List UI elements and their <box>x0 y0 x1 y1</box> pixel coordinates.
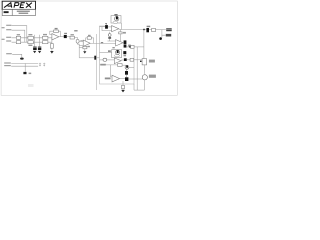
wire bias row <box>108 40 116 42</box>
wire comp rail <box>79 57 94 59</box>
wire elbow <box>102 27 112 31</box>
node label LIM <box>2 39 5 40</box>
op-amp U2 <box>83 40 90 46</box>
label R8 value <box>71 34 74 35</box>
wire pad B riser <box>106 23 108 25</box>
wire U5 out <box>122 42 125 44</box>
wire <box>12 54 22 57</box>
amplifier internal box U3 <box>100 26 135 84</box>
wire U1 output <box>59 36 64 38</box>
ground pad <box>23 72 26 74</box>
diode D2 <box>124 44 127 47</box>
wire lower row <box>100 64 118 66</box>
wire U6 out <box>121 59 124 61</box>
label row2 <box>6 29 11 30</box>
transistor Q1 cell <box>111 16 121 24</box>
resistor R5b <box>43 41 48 44</box>
transistor Q2 cell <box>112 50 122 58</box>
capacitor C2 <box>38 47 41 50</box>
label part number <box>74 30 77 32</box>
wire cap riser 2 <box>38 35 40 47</box>
current source I1 <box>108 32 111 41</box>
op-amp U7 driver <box>112 75 120 82</box>
label Q2 <box>112 47 114 48</box>
ground under C4 <box>83 51 86 53</box>
transistor Q3 <box>125 65 129 69</box>
node dot R13 <box>129 46 130 47</box>
symbol arrow 1 <box>39 63 41 67</box>
label C7 value <box>147 26 151 28</box>
ground under C1 <box>33 51 36 53</box>
wire U6 input <box>100 59 115 61</box>
wire <box>84 49 86 51</box>
label D6 <box>124 55 127 56</box>
label rowA <box>6 37 11 38</box>
wire rowB <box>12 41 52 43</box>
ground <box>20 58 24 60</box>
wire <box>161 35 163 37</box>
wire D4 <box>126 69 128 77</box>
ground under R12 <box>121 90 125 93</box>
wire output descent <box>143 30 145 59</box>
node pad B <box>105 25 108 29</box>
label C4 value <box>87 46 90 47</box>
node pad A <box>64 35 67 38</box>
diode D1 <box>124 40 127 44</box>
title block text <box>4 11 9 13</box>
label bias2 <box>100 64 106 66</box>
APEX logo <box>4 3 32 8</box>
wire rail riser <box>136 47 138 90</box>
wire long feedback vertical <box>96 34 98 90</box>
label R2 value <box>28 34 32 35</box>
resistor R11 <box>118 64 123 67</box>
wire <box>67 36 70 38</box>
node label IN <box>2 27 5 28</box>
label pad B <box>105 23 107 24</box>
wire <box>79 40 83 42</box>
label R1 value <box>17 34 20 35</box>
capacitor C5 <box>94 56 96 60</box>
wire Q2 left <box>100 52 112 54</box>
wire <box>122 64 126 66</box>
capacitor C1 <box>33 47 37 50</box>
resistor R8 <box>70 36 74 39</box>
wire to load <box>128 78 142 80</box>
diode D6 <box>123 51 126 54</box>
footer text <box>28 84 34 87</box>
wire bottom rail <box>134 89 144 91</box>
wire main output run <box>119 29 166 31</box>
wire U4 input <box>108 26 112 28</box>
schematic frame <box>1 1 177 95</box>
label R9 value <box>88 35 91 36</box>
diode D5 pad <box>125 77 128 81</box>
resistor R4 <box>16 41 20 44</box>
wire <box>79 47 83 49</box>
op-amp U5 driver <box>116 40 123 46</box>
title block <box>2 1 35 15</box>
ground under R6 <box>50 51 54 54</box>
wire load bottom <box>143 80 145 90</box>
capacitor C7 <box>146 28 149 32</box>
op-amp U1 <box>52 34 59 40</box>
label R7 value <box>55 28 58 29</box>
wire U2 output <box>90 42 115 44</box>
resistor R13 on box edge <box>131 45 135 48</box>
wire U7 loop <box>111 65 112 77</box>
node dot RCL <box>140 61 141 62</box>
label Q1 <box>114 14 117 16</box>
label R5 value <box>28 45 32 46</box>
wire Q3 right <box>129 66 134 68</box>
wire R13 to out <box>134 46 144 48</box>
ground under C2 <box>38 51 41 53</box>
wire U7 out <box>120 78 125 80</box>
capacitor C6 <box>103 58 107 61</box>
terminal label sense <box>166 34 171 37</box>
resistor R10 <box>130 58 134 61</box>
diode D3 pad <box>124 58 127 61</box>
wire U1 feedback <box>50 31 61 37</box>
wire <box>79 44 83 46</box>
wire RCL to load <box>143 65 145 74</box>
load M1 <box>142 75 147 80</box>
wire rowB riser <box>51 38 53 44</box>
label C3 value <box>80 40 83 41</box>
wire to RCL <box>134 59 143 61</box>
resistor R5 <box>28 41 34 44</box>
wire diodes to R13 <box>126 46 129 48</box>
label COM2 <box>4 65 11 66</box>
wire cap riser 1 <box>34 35 36 47</box>
label VIN row <box>6 53 12 54</box>
wire rowA <box>12 37 52 39</box>
label Q2 pin <box>108 50 111 52</box>
wire <box>74 38 77 40</box>
resistor R14 <box>152 28 156 31</box>
wire <box>11 63 38 65</box>
resistor RCL vertical <box>142 59 147 65</box>
resistor R12 bottom <box>122 81 125 90</box>
wire row1 <box>12 26 27 43</box>
wire <box>11 65 38 67</box>
label row1 <box>6 25 11 26</box>
op-amp U6 driver <box>114 58 121 64</box>
resistor R9 feedback <box>87 37 91 40</box>
label RCL <box>149 60 155 63</box>
resistor R1 <box>16 36 20 39</box>
label COM1 <box>4 62 11 63</box>
label IN4 <box>105 78 111 80</box>
wire U1 input top <box>50 34 52 36</box>
resistor R7 feedback <box>54 30 59 33</box>
label +IN pin <box>101 42 103 43</box>
node junction out <box>143 29 145 31</box>
capacitor C3 <box>76 39 79 43</box>
terminal label VOUT <box>166 28 172 31</box>
wire row2 <box>12 30 25 42</box>
capacitor C4 <box>83 46 87 49</box>
wire ground drop <box>24 64 26 72</box>
label CC <box>123 32 126 34</box>
label node A <box>64 33 67 34</box>
label rowB <box>6 40 11 41</box>
diode D4 <box>125 71 128 75</box>
resistor R2 <box>28 36 34 39</box>
label R3 value <box>43 34 47 35</box>
wire Q1 to output <box>121 23 123 30</box>
wire comp branch <box>78 43 80 58</box>
resistor R6 vertical <box>50 44 53 51</box>
wire pad B left <box>100 26 106 28</box>
label ground <box>29 73 32 75</box>
wire <box>127 59 130 61</box>
wire sense branch <box>162 30 166 36</box>
symbol arrow 2 <box>43 63 45 67</box>
op-amp U4 input stage <box>112 26 119 32</box>
resistor R3 <box>43 36 48 39</box>
wire U2 feedback <box>86 38 94 44</box>
wire <box>96 57 99 59</box>
wire box corner drop <box>133 84 135 90</box>
label load <box>149 75 156 78</box>
capacitor CC <box>119 30 122 42</box>
label D2 <box>128 45 131 47</box>
ground dot <box>159 37 162 40</box>
